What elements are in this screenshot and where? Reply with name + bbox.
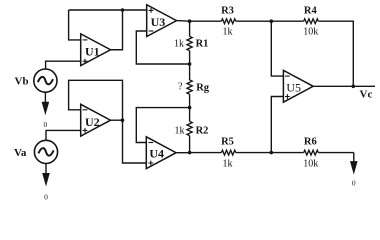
voltage source Vb: [34, 69, 57, 92]
wire: [271, 97, 283, 153]
svg-text:0: 0: [44, 120, 48, 129]
wire: [136, 108, 189, 143]
svg-text:U3: U3: [151, 15, 166, 29]
ground: [45, 164, 47, 175]
resistor R3: [221, 19, 235, 24]
resistor R2: [187, 121, 192, 135]
svg-text:R1: R1: [196, 38, 209, 49]
op-amp U5: [283, 70, 313, 102]
wire: [318, 21, 353, 86]
wire: [190, 152, 222, 154]
svg-text:R3: R3: [221, 6, 234, 17]
node: [188, 19, 192, 23]
wire: [190, 20, 222, 22]
node: [270, 19, 274, 23]
wire: [189, 51, 191, 64]
wire: [271, 20, 303, 22]
wire: [69, 9, 147, 11]
op-amp U4: [146, 137, 176, 169]
node: [188, 151, 192, 155]
svg-text:R2: R2: [196, 126, 209, 137]
op-amp U2: [81, 104, 111, 136]
svg-text:R6: R6: [304, 136, 317, 147]
node: [188, 62, 192, 66]
svg-text:1k: 1k: [223, 27, 233, 38]
svg-text:0: 0: [352, 179, 356, 188]
resistor Rg: [187, 80, 192, 94]
wire: [177, 20, 190, 23]
wire: [110, 10, 122, 50]
wire: [123, 120, 147, 163]
wire: [69, 10, 81, 40]
node: [270, 151, 274, 155]
op-amp U1: [81, 34, 111, 66]
svg-text:R5: R5: [221, 136, 234, 147]
wire: [136, 31, 189, 64]
node: [352, 85, 356, 89]
svg-text:Va: Va: [14, 147, 27, 159]
wire: [189, 108, 191, 122]
svg-text:10k: 10k: [303, 159, 318, 170]
svg-text:U1: U1: [85, 44, 100, 58]
wire: [69, 80, 123, 120]
wire: [110, 119, 122, 121]
ground: [353, 153, 355, 163]
resistor R4: [304, 19, 319, 24]
wire: [236, 20, 271, 22]
wire: [318, 152, 354, 154]
svg-text:Rg: Rg: [196, 83, 210, 94]
wire: [46, 61, 81, 69]
svg-text:0: 0: [44, 192, 48, 201]
svg-text:R4: R4: [304, 6, 318, 17]
wire: [313, 85, 375, 87]
wire: [189, 21, 191, 36]
node: [121, 8, 125, 12]
svg-text:1k: 1k: [175, 126, 185, 137]
resistor R5: [221, 150, 235, 155]
node: [188, 106, 192, 110]
resistor R6: [304, 150, 319, 155]
voltage source Va: [34, 140, 57, 163]
svg-text:1k: 1k: [223, 159, 233, 170]
wire: [46, 130, 81, 140]
ground: [44, 92, 46, 103]
resistor R1: [187, 36, 192, 50]
wire: [189, 64, 191, 80]
wire: [176, 152, 190, 154]
svg-text:Vc: Vc: [360, 89, 373, 101]
node: [121, 118, 125, 122]
svg-text:U5: U5: [286, 80, 301, 94]
wire: [189, 136, 191, 153]
svg-text:10k: 10k: [303, 27, 318, 38]
svg-text:Vb: Vb: [15, 75, 29, 87]
svg-text:U2: U2: [85, 115, 100, 129]
svg-text:1k: 1k: [174, 38, 184, 49]
svg-text:?: ?: [178, 82, 183, 93]
op-amp U3: [147, 5, 177, 37]
wire: [271, 152, 303, 154]
wire: [271, 21, 283, 76]
wire: [189, 94, 191, 107]
svg-text:U4: U4: [149, 147, 164, 161]
wire: [236, 152, 271, 154]
